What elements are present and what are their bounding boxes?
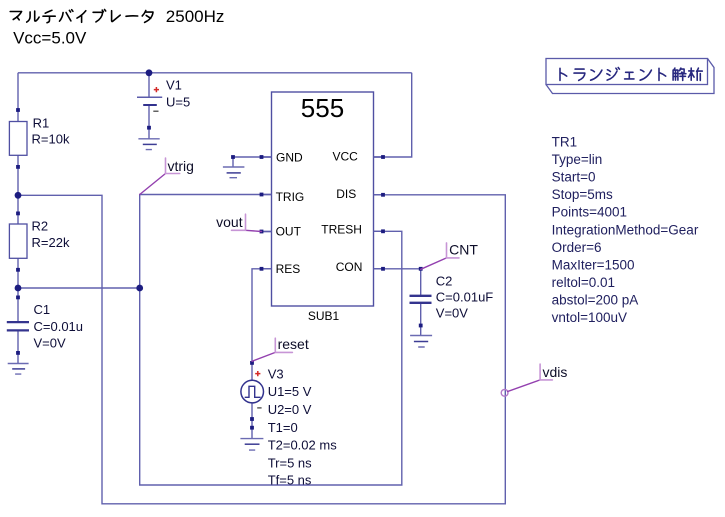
svg-text:Order=6: Order=6 [552, 240, 602, 255]
svg-text:C1: C1 [34, 302, 51, 317]
svg-text:OUT: OUT [276, 225, 302, 239]
svg-text:555: 555 [301, 93, 344, 123]
svg-text:C2: C2 [436, 274, 453, 289]
svg-text:Tf=5 ns: Tf=5 ns [268, 473, 312, 488]
svg-text:V3: V3 [268, 366, 284, 381]
svg-text:IntegrationMethod=Gear: IntegrationMethod=Gear [552, 222, 699, 237]
svg-text:Tr=5 ns: Tr=5 ns [268, 456, 312, 471]
svg-text:C=0.01uF: C=0.01uF [436, 290, 494, 305]
svg-text:Start=0: Start=0 [552, 170, 596, 185]
svg-text:TRIG: TRIG [276, 190, 305, 204]
svg-text:vout: vout [216, 214, 243, 230]
svg-text:GND: GND [276, 150, 303, 164]
svg-text:reset: reset [278, 336, 309, 352]
svg-text:U2=0 V: U2=0 V [268, 402, 312, 417]
svg-text:TRESH: TRESH [321, 223, 362, 237]
svg-text:SUB1: SUB1 [308, 309, 340, 323]
svg-text:2500Hz: 2500Hz [166, 7, 225, 26]
svg-text:reltol=0.01: reltol=0.01 [552, 275, 615, 290]
svg-text:R=10k: R=10k [32, 132, 70, 147]
svg-text:R=22k: R=22k [32, 235, 70, 250]
svg-text:vntol=100uV: vntol=100uV [552, 310, 627, 325]
svg-text:U=5: U=5 [166, 94, 190, 109]
svg-text:R2: R2 [32, 218, 49, 233]
svg-text:abstol=200 pA: abstol=200 pA [552, 293, 639, 308]
svg-text:U1=5 V: U1=5 V [268, 384, 312, 399]
svg-text:Type=lin: Type=lin [552, 152, 603, 167]
svg-text:CON: CON [336, 260, 363, 274]
svg-text:vtrig: vtrig [168, 158, 194, 174]
svg-text:T2=0.02 ms: T2=0.02 ms [268, 438, 338, 453]
svg-text:V=0V: V=0V [436, 306, 468, 321]
svg-text:vdis: vdis [543, 364, 568, 380]
svg-text:VCC: VCC [333, 150, 359, 164]
svg-text:MaxIter=1500: MaxIter=1500 [552, 257, 635, 272]
svg-text:CNT: CNT [449, 241, 478, 257]
svg-text:T1=0: T1=0 [268, 420, 298, 435]
svg-text:TR1: TR1 [552, 135, 578, 150]
svg-text:Stop=5ms: Stop=5ms [552, 187, 613, 202]
svg-text:V1: V1 [166, 77, 182, 92]
svg-text:C=0.01u: C=0.01u [34, 319, 84, 334]
svg-text:Points=4001: Points=4001 [552, 205, 627, 220]
svg-text:DIS: DIS [336, 187, 356, 201]
svg-text:R1: R1 [33, 116, 50, 131]
svg-text:Vcc=5.0V: Vcc=5.0V [13, 28, 87, 47]
svg-text:RES: RES [276, 262, 301, 276]
svg-text:V=0V: V=0V [34, 335, 66, 350]
